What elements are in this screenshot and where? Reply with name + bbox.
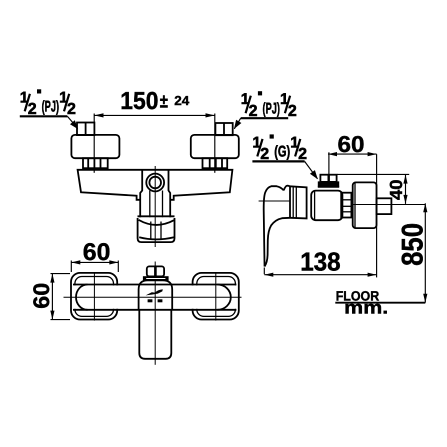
svg-text:(G): (G) [274,144,290,161]
svg-text:150: 150 [120,88,158,115]
svg-text:60: 60 [83,239,111,266]
svg-text:(PJ): (PJ) [263,100,281,117]
svg-text:138: 138 [300,247,341,277]
svg-text:60: 60 [29,283,54,309]
svg-text:850: 850 [396,223,429,266]
svg-text:24: 24 [174,93,190,108]
svg-text:60: 60 [338,131,365,157]
svg-text:40: 40 [386,179,406,200]
svg-text:(PJ): (PJ) [42,99,60,116]
svg-text:mm.: mm. [344,298,388,318]
svg-text:±: ± [160,91,168,113]
